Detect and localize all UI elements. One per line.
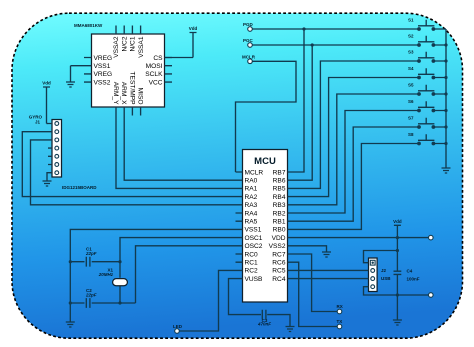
wire gyro pin1 to Vdd (47, 123, 49, 125)
svg-text:RB4: RB4 (273, 194, 286, 201)
svg-text:RA4: RA4 (245, 210, 258, 217)
Vdd symbol above C4 (393, 219, 402, 238)
junction C1 right at crystal (118, 260, 121, 263)
svg-text:J2: J2 (381, 268, 387, 273)
wire PGD to S1 row (252, 28, 419, 30)
svg-text:RB5: RB5 (273, 186, 286, 193)
svg-text:RA2: RA2 (245, 194, 258, 201)
junction C4 bottom / J2 pin4 (396, 293, 399, 296)
svg-text:RB1: RB1 (273, 219, 286, 226)
wire RB6 to S2 net (295, 45, 313, 180)
svg-text:VSS2: VSS2 (269, 243, 286, 250)
gyro connector J1 body (29, 115, 98, 190)
svg-text:CS: CS (153, 55, 163, 62)
svg-text:VSS1: VSS1 (94, 63, 111, 70)
wire accel CS to Vdd (165, 57, 194, 59)
svg-text:100nF: 100nF (407, 276, 420, 281)
ground at accel VSS1 (66, 66, 84, 87)
svg-text:RC7: RC7 (272, 251, 286, 258)
wire MCLR terminal to MCU MCLR (236, 61, 297, 172)
svg-text:RC6: RC6 (272, 260, 286, 267)
switch S4 (408, 66, 446, 79)
svg-text:RB2: RB2 (273, 210, 286, 217)
svg-text:MCLR: MCLR (245, 169, 264, 176)
crystal X1 20MHz (98, 268, 128, 304)
junction RB7/PGD (302, 27, 305, 30)
svg-text:S7: S7 (408, 116, 414, 121)
accel top pin stubs VSSA2 N/C2 N/C1 VSSA1 (113, 26, 145, 58)
switch common bus wire (444, 29, 447, 168)
wire MCU VSS1 to C1 C2 net (70, 229, 235, 322)
svg-text:S2: S2 (408, 34, 414, 39)
svg-text:VREG: VREG (94, 71, 113, 78)
svg-text:VREG: VREG (94, 55, 113, 62)
svg-text:J1: J1 (35, 120, 41, 125)
wire MCU VSS2 to ground (295, 246, 327, 252)
Vdd symbol at accel CS (189, 26, 198, 58)
ground at C3 (286, 327, 295, 332)
svg-text:RA0: RA0 (245, 178, 258, 185)
ground at C4 (393, 320, 402, 325)
capacitor C1 22pF (70, 247, 120, 267)
svg-text:RA3: RA3 (245, 202, 258, 209)
svg-text:TX: TX (337, 319, 343, 324)
terminal RX (337, 304, 343, 314)
svg-text:VDD: VDD (272, 235, 286, 242)
wire gyro pin2 to MCU RA2 (22, 132, 235, 197)
svg-text:OSC2: OSC2 (245, 243, 263, 250)
svg-text:ARM_Y: ARM_Y (112, 82, 119, 105)
accel left pin stubs VREG VSS1 VREG VSS2 (84, 55, 112, 87)
junction C1 left (69, 260, 72, 263)
svg-text:S1: S1 (408, 18, 414, 23)
capacitor C4 100nF (394, 269, 420, 296)
svg-text:SCLK: SCLK (145, 71, 163, 78)
svg-text:S3: S3 (408, 50, 414, 55)
J2 pin1 square (370, 260, 375, 265)
svg-text:RB3: RB3 (273, 202, 286, 209)
switch S2 (408, 34, 446, 47)
junction C2 at crystal (118, 301, 121, 304)
svg-text:MOSI: MOSI (146, 63, 163, 70)
terminal LED (173, 324, 183, 334)
switch S1 (408, 18, 446, 31)
svg-text:RX: RX (337, 304, 343, 309)
wire RB5 to S3 (295, 61, 420, 188)
switch S8 (408, 132, 446, 145)
svg-text:S8: S8 (408, 132, 414, 137)
terminal PGC (243, 38, 254, 47)
wire PGC to S2 row (252, 44, 419, 46)
svg-text:RB7: RB7 (273, 169, 286, 176)
svg-text:S6: S6 (408, 99, 414, 104)
wire accel ARM_Y to MCU RA1 (116, 107, 236, 188)
MCU U2 body (243, 150, 288, 303)
svg-text:Vdd: Vdd (189, 26, 198, 31)
svg-text:LED: LED (173, 324, 183, 329)
svg-text:MMA6801KW: MMA6801KW (74, 23, 103, 28)
svg-text:RB6: RB6 (273, 178, 286, 185)
svg-text:S5: S5 (408, 83, 414, 88)
svg-text:N/C1: N/C1 (130, 36, 137, 51)
wire RB4 to S4 (295, 78, 420, 197)
wire MCU RC7 to RX (295, 254, 338, 312)
wire RB0 to S8 (295, 144, 420, 230)
wire C4 bottom to ground (396, 295, 398, 320)
junction RB6/PGC (311, 43, 314, 46)
wire J2 pin4 to ground net (364, 287, 398, 295)
svg-text:S4: S4 (408, 66, 414, 71)
wire MCU OSC2 to crystal bottom (136, 246, 236, 303)
svg-text:RB0: RB0 (273, 227, 286, 234)
switch S5 (408, 83, 446, 96)
switch S6 (408, 99, 446, 112)
svg-text:22pF: 22pF (85, 293, 97, 298)
junction J2 pin1 tap (396, 249, 399, 252)
svg-text:OSC1: OSC1 (245, 235, 263, 242)
switch S7 (408, 116, 446, 129)
ground at bottom left (66, 322, 75, 327)
svg-text:20MHz: 20MHz (98, 272, 114, 277)
wire RB2 to S6 (295, 111, 420, 214)
terminal VDD right (429, 235, 434, 240)
ground at switch bus (442, 168, 451, 173)
svg-text:VSS2: VSS2 (94, 79, 111, 86)
terminal PGD (243, 22, 254, 31)
svg-text:VSSA1: VSSA1 (138, 36, 145, 58)
wire MCU OSC1 to crystal top (120, 238, 236, 278)
svg-text:RC0: RC0 (245, 251, 259, 258)
J2 pins 2-4 (371, 269, 375, 289)
junction C2 left (69, 301, 72, 304)
svg-text:VSS1: VSS1 (245, 227, 262, 234)
wire MCU VDD to right terminal (295, 237, 429, 239)
switch S3 (408, 50, 446, 63)
svg-text:22pF: 22pF (85, 251, 97, 256)
svg-text:IDG1215BOARD: IDG1215BOARD (62, 185, 97, 190)
Vdd symbol above gyro J1 (42, 81, 51, 124)
wire gyro pin3 to MCU RA3 (31, 140, 236, 205)
junction VDD/Vdd (396, 236, 399, 239)
connector J2 USB body (369, 258, 392, 292)
svg-text:USB: USB (381, 276, 391, 281)
accel bottom pin stubs TEST/MPP MISO (112, 72, 144, 116)
svg-text:Vdd: Vdd (393, 219, 402, 224)
wire accel ARM_X to MCU RA0 (124, 107, 235, 180)
svg-text:RC5: RC5 (272, 268, 286, 275)
svg-text:470nF: 470nF (257, 322, 271, 327)
accelerometer U1 MMA6801KW body (74, 23, 165, 107)
wire MCU RC2 to LED terminal (179, 270, 235, 331)
svg-text:C4: C4 (407, 269, 413, 274)
wire MCU VUSB to C3 (229, 279, 262, 315)
terminal right lower (397, 293, 433, 298)
wire RB7 to S1 net (295, 29, 305, 172)
svg-text:VSSA2: VSSA2 (113, 36, 120, 58)
terminal TX (337, 319, 343, 329)
svg-text:TEST/MPP: TEST/MPP (128, 72, 135, 106)
wire MCU RC4 to J2 pin3 (295, 278, 369, 280)
svg-text:PGD: PGD (243, 22, 254, 27)
wire Vdd down to C4 (396, 238, 398, 271)
svg-text:RA5: RA5 (245, 219, 258, 226)
wire MCU RC6 to TX (295, 262, 338, 326)
svg-text:PGC: PGC (243, 38, 254, 43)
terminal MCLR (242, 54, 256, 63)
svg-text:RC4: RC4 (272, 276, 286, 283)
wire J2 pin1 to Vdd net (364, 251, 398, 263)
wire MCU RC5 to J2 pin2 (295, 269, 369, 271)
svg-text:ARM_X: ARM_X (120, 82, 127, 105)
svg-text:MISO: MISO (137, 88, 144, 105)
capacitor C3 470nF (257, 310, 290, 327)
svg-text:N/C2: N/C2 (121, 36, 128, 51)
capacitor C2 22pF (70, 288, 135, 308)
gyro J1 pins 1-7 (48, 122, 59, 175)
svg-text:VCC: VCC (149, 79, 163, 86)
ground at gyro pin7 (43, 173, 52, 186)
svg-text:VUSB: VUSB (245, 276, 264, 283)
MCU left pin stubs and labels (236, 169, 264, 283)
wire RB1 to S7 (295, 127, 420, 221)
MCU right pin stubs and labels (269, 169, 295, 283)
wire RB3 to S5 (295, 94, 420, 205)
ground at MCU VSS2 (322, 252, 331, 257)
svg-text:MCLR: MCLR (242, 54, 256, 59)
svg-text:RC1: RC1 (245, 260, 259, 267)
accel right pin stubs CS MOSI SCLK VCC (145, 55, 172, 87)
svg-text:RA1: RA1 (245, 186, 258, 193)
svg-text:MCU: MCU (254, 156, 276, 167)
svg-text:RC2: RC2 (245, 268, 259, 275)
svg-text:Vdd: Vdd (42, 81, 51, 86)
